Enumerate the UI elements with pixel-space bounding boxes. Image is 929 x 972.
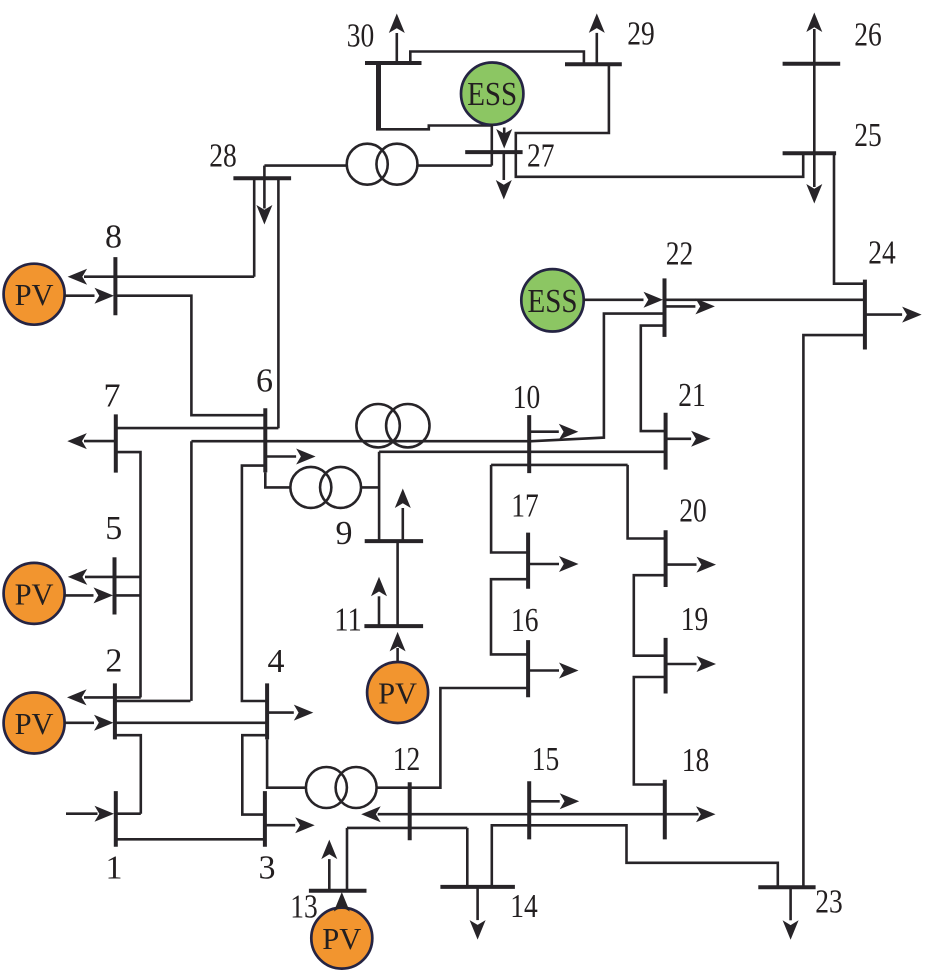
svg-text:4: 4 (268, 643, 285, 680)
svg-text:5: 5 (105, 510, 122, 547)
svg-text:23: 23 (815, 884, 843, 921)
svg-text:9: 9 (336, 515, 353, 552)
svg-text:21: 21 (678, 377, 706, 414)
svg-text:PV: PV (378, 677, 417, 711)
svg-text:6: 6 (256, 363, 273, 400)
svg-text:14: 14 (510, 888, 538, 925)
svg-text:7: 7 (104, 378, 121, 415)
svg-text:15: 15 (532, 741, 560, 778)
svg-text:29: 29 (627, 16, 655, 53)
svg-text:2: 2 (105, 643, 122, 680)
svg-text:PV: PV (15, 577, 54, 611)
svg-text:25: 25 (854, 117, 882, 154)
svg-text:PV: PV (15, 278, 54, 312)
svg-text:30: 30 (347, 18, 375, 55)
svg-text:17: 17 (511, 488, 539, 525)
svg-text:12: 12 (393, 741, 421, 778)
svg-text:27: 27 (527, 138, 555, 175)
svg-text:ESS: ESS (467, 76, 517, 113)
svg-text:16: 16 (511, 602, 539, 639)
svg-text:PV: PV (15, 707, 54, 741)
svg-text:13: 13 (290, 889, 318, 926)
svg-text:24: 24 (868, 235, 896, 272)
svg-text:8: 8 (105, 219, 122, 256)
svg-text:ESS: ESS (528, 283, 578, 320)
svg-text:22: 22 (666, 236, 694, 273)
svg-text:1: 1 (106, 850, 123, 887)
svg-text:28: 28 (209, 138, 237, 175)
svg-text:26: 26 (854, 17, 882, 54)
svg-text:3: 3 (259, 850, 276, 887)
svg-text:10: 10 (513, 379, 541, 416)
svg-text:19: 19 (681, 601, 709, 638)
svg-text:PV: PV (322, 922, 361, 956)
svg-text:18: 18 (682, 742, 710, 779)
svg-text:11: 11 (334, 602, 362, 639)
svg-text:20: 20 (679, 493, 707, 530)
